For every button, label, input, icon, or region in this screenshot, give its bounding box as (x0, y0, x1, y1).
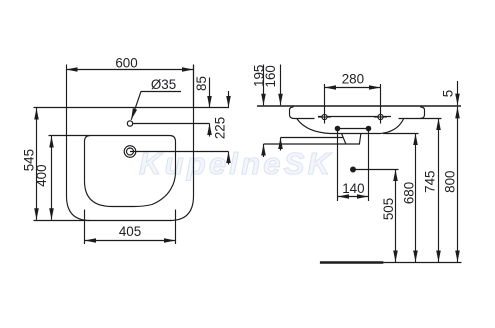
basin outer outline right edge + bottom-right corner (170, 65, 194, 221)
left rim cap outline (290, 107, 315, 119)
dim 85 lower segment with up arrow (209, 124, 211, 137)
overflow hole inner circle (127, 148, 134, 155)
dim 405 line (85, 240, 176, 242)
dim 280 right extension (380, 84, 382, 124)
tap hole circle (127, 121, 132, 126)
basin outer outline left edge + bottom-left corner (67, 65, 91, 221)
svg-text:505: 505 (381, 198, 396, 220)
tap hole center line to right (133, 123, 210, 125)
svg-text:280: 280 (342, 71, 364, 86)
svg-text:225: 225 (212, 117, 227, 139)
dim 505 line (395, 170, 397, 263)
svg-text:600: 600 (115, 55, 137, 70)
drain boss (342, 134, 361, 145)
mounting hole right crosshair (374, 116, 387, 118)
fixing bolt dot left (335, 126, 339, 130)
floor line thin part (383, 262, 461, 264)
dim 225 upper segment with down arrow (228, 91, 230, 108)
svg-text:140: 140 (342, 181, 364, 196)
dim 800 line (457, 107, 459, 262)
rim underside extension to 745 dim (420, 118, 441, 120)
dim 600 right extension (193, 65, 195, 108)
dim 195 upper segment with down arrow (263, 65, 265, 106)
dim 160 lower segment with up arrow (280, 138, 282, 151)
mounting hole circle right (378, 114, 383, 119)
dim 195 lower segment with up arrow (263, 144, 265, 157)
bowl top extension line (to 400 dim) (49, 135, 91, 137)
svg-text:800: 800 (443, 171, 458, 193)
leader line for tap hole O35 (131, 92, 181, 120)
dim 5 upper arrow (457, 81, 459, 105)
dim 85 upper segment with down arrow (209, 78, 211, 108)
overflow center line to right (130, 151, 229, 153)
back mid contour line (318, 116, 391, 118)
mounting hole circle left (322, 114, 327, 119)
inner bowl outline (85, 136, 176, 207)
svg-text:85: 85 (194, 76, 209, 91)
dim 405 left extension (84, 210, 86, 245)
fixing bolt dot right (366, 126, 370, 130)
dim 545 line (36, 108, 38, 220)
basin rim line (top edge, extends left and right for dims) (34, 107, 230, 109)
line between fixing dots (338, 128, 369, 130)
svg-text:405: 405 (119, 224, 141, 239)
bowl underside outer curve (297, 119, 404, 134)
floor line thick part (320, 261, 384, 263)
right rim cap outline (399, 107, 425, 119)
siphon line to right (505 dim) (353, 169, 399, 171)
dim 280 line (325, 87, 381, 89)
mounting hole left crosshair (318, 116, 331, 118)
svg-text:400: 400 (34, 164, 49, 186)
160 reference line (281, 137, 344, 139)
bowl bottom extension line (680 dim) (383, 133, 419, 135)
svg-text:160: 160 (263, 65, 278, 87)
svg-text:Ø35: Ø35 (151, 77, 176, 92)
overflow hole outer circle (124, 146, 136, 158)
basin bottom line (extends left for dims) (34, 220, 172, 222)
dim 745 line (438, 119, 440, 263)
svg-text:680: 680 (401, 182, 416, 204)
siphon dot (351, 167, 356, 172)
dim 680 line (415, 134, 417, 263)
watermark (139, 146, 333, 181)
dim 280 left extension (324, 84, 326, 124)
fixing dot left vertical extension (337, 129, 339, 202)
dim 160 upper segment with down arrow (280, 65, 282, 106)
195 reference line (264, 143, 346, 145)
svg-text:745: 745 (423, 171, 438, 193)
dim 405 right extension (175, 210, 177, 245)
dim 225 lower segment with up arrow (228, 152, 230, 165)
dim 400 line (51, 136, 53, 220)
svg-text:5: 5 (441, 90, 456, 97)
rim line (extends left and right for dims) (257, 105, 461, 107)
dim 600 line (66, 69, 194, 71)
fixing dot right vertical extension (368, 129, 370, 202)
dim 140 line (338, 196, 369, 198)
